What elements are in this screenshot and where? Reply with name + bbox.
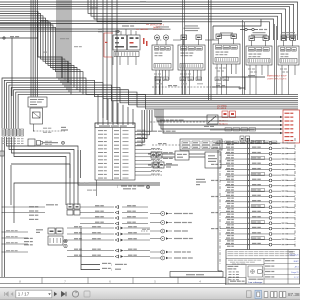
svg-text:LT2 GRN A: LT2 GRN A — [217, 104, 227, 107]
border drawing frame bottom — [0, 278, 226, 286]
toolbar button first page — [5, 292, 9, 296]
wire CRB MRL emergency stop — [222, 75, 287, 90]
svg-text:LIGHT OPT 2 OUT 3: LIGHT OPT 2 OUT 3 — [267, 79, 287, 81]
wire LIGA GRN branch — [212, 85, 240, 87]
wire bus return branch — [213, 19, 261, 40]
toolbar button next page — [54, 292, 57, 296]
wire top bus lower lines staircase to mid band — [0, 11, 83, 94]
wire top power bus upper lines — [0, 2, 298, 40]
relay K1 dual pack — [113, 29, 140, 65]
wire labeled terminal bus — [215, 141, 280, 144]
label HOSE CONTROL — [61, 127, 68, 131]
toolbar button properties — [247, 291, 252, 298]
svg-text:}: } — [117, 184, 118, 188]
wire arrow rows to controller — [155, 109, 283, 134]
connector strip under modules — [155, 77, 229, 84]
svg-text:87.38: 87.38 — [288, 292, 300, 297]
switch module S2 STRANDCUT STUD DEVICE — [178, 25, 205, 94]
switch S8 pair — [148, 151, 205, 160]
node ground symbol near bracket — [147, 186, 150, 189]
connector P3 plug — [28, 139, 64, 146]
wire fanout left feeders — [211, 148, 225, 229]
svg-text:EMERGENCY STOP: EMERGENCY STOP — [267, 76, 287, 78]
toolbar button export disabled — [84, 291, 90, 297]
wire CRL GRN dashed row — [152, 85, 245, 89]
svg-text:4W FULT OPT 1: 4W FULT OPT 1 — [150, 24, 164, 26]
toolbar button single page view selected — [255, 290, 261, 298]
svg-text:GA OPT: GA OPT — [153, 26, 161, 29]
title block disclaimer text — [226, 251, 300, 264]
controller U1 red box — [283, 110, 300, 143]
title block mm-in cell — [226, 265, 264, 284]
label red GA FULT OPT — [146, 24, 164, 29]
switch module S5 4WD SEAT BUF OPTIONAL — [278, 32, 299, 94]
wire vertical bundle x57 — [57, 0, 71, 94]
wire J2 right fan labels — [135, 148, 163, 175]
toolbar button print — [72, 291, 78, 297]
label LAYER COMPANION strip — [170, 272, 223, 278]
svg-text:RD GRN B: RD GRN B — [217, 108, 227, 110]
bus vertical distribution pair — [248, 138, 250, 282]
switch S7 red annotations — [152, 104, 236, 131]
switch S6 LIFT TILT lever — [28, 97, 65, 133]
wire inter-module nets — [158, 39, 219, 41]
label compressor controller box — [196, 179, 206, 185]
relay K2 VDB door relay — [205, 152, 221, 168]
connector J2 switch panel — [95, 123, 135, 180]
wire module S1 S2 bottom verticals — [155, 0, 211, 100]
connector left edge small — [0, 151, 4, 156]
toolbar button book view — [279, 292, 285, 298]
svg-text:Lan. subraspu: Lan. subraspu — [249, 282, 263, 284]
wire long verticals middle x103-117 — [103, 0, 117, 124]
wire red relay coil feed — [98, 29, 148, 57]
toolbar page number field — [16, 290, 52, 298]
svg-text:1 / 17: 1 / 17 — [18, 292, 30, 297]
diode rows D1-D5 — [67, 226, 150, 258]
title block frame — [226, 250, 300, 285]
wire nested loop rectangles — [7, 137, 79, 205]
label relay annotations — [122, 20, 165, 31]
toolbar button continuous view — [264, 292, 268, 298]
wire left cluster feeders — [2, 207, 46, 253]
svg-text:1 / 17: 1 / 17 — [294, 277, 299, 279]
wire main horizontal bus band stepped — [2, 78, 298, 129]
toolbar button last page — [61, 292, 66, 296]
wire J2 right rows to band — [135, 110, 152, 146]
wire bottom center bus — [218, 150, 222, 271]
svg-text:B-WC: B-WC — [294, 261, 299, 263]
node ORG TRM — [0, 36, 38, 39]
fuse F1 inline pair — [240, 28, 267, 30]
wire horizontal band y20 — [0, 21, 162, 24]
wire 5V REG line — [78, 150, 160, 185]
switch module S1 BA FULT OPT — [152, 26, 173, 94]
title block right column — [264, 250, 300, 284]
svg-text:-87 4: -87 4 — [294, 267, 298, 269]
svg-text:2010-05-21: 2010-05-21 — [289, 255, 298, 257]
wire left edge verticals — [2, 38, 12, 277]
toolbar button previous page — [11, 292, 14, 296]
wire horizontal pair y29 — [0, 29, 162, 31]
label LIGAMO — [140, 1, 146, 2]
switch S9 pair — [148, 162, 178, 168]
toolbar button facing view — [271, 292, 277, 298]
wire mid bus from stair x88 — [88, 0, 282, 40]
wire J2 bottom stub — [87, 180, 97, 196]
wire dashed branch to S7 — [150, 120, 206, 123]
wire fanout rows — [225, 140, 295, 247]
sensor rows with circle connectors — [141, 212, 193, 261]
label ground bracket — [117, 184, 144, 189]
wire vertical bundle left x31 — [31, 0, 37, 97]
toolbar zoom percent — [288, 292, 300, 297]
wire bracket ENKOBLERA — [81, 228, 127, 272]
switch module S4 4WD CLUTCH OPTIONAL — [246, 32, 272, 94]
connector row above terminal bus — [210, 128, 256, 141]
svg-text:GA3 MRL: GA3 MRL — [140, 28, 148, 31]
connector row J5 terminal strip — [2, 129, 24, 144]
svg-text:Freya 21: Freya 21 — [291, 272, 298, 274]
wire drops into connector J2 — [98, 95, 133, 125]
label top-left wire tags — [43, 7, 98, 52]
label revision box on border — [228, 278, 246, 284]
connector J6 wide — [152, 139, 222, 150]
relay K4 RV-RELAY ARB — [24, 228, 67, 248]
logo emblem — [248, 266, 263, 284]
relay K3 BV-RELAY rows — [29, 204, 148, 225]
wire inter-module vertical feeders — [183, 0, 277, 95]
switch module S3 FUNCTION LOCKOUT — [213, 32, 240, 94]
wire big loop rectangle — [11, 165, 160, 223]
wire dash-dot boundary buses — [220, 138, 295, 265]
